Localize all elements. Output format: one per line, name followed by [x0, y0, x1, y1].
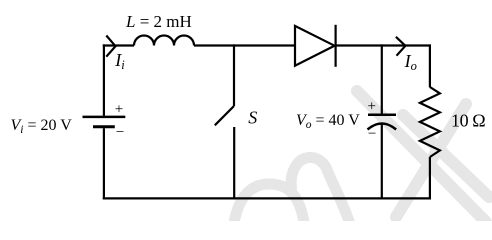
watermark diagonal band: [357, 91, 486, 222]
svg-text:−: −: [116, 125, 124, 141]
wire inductor to diode: [194, 44, 295, 46]
diode D1 triangle: [295, 26, 335, 66]
wire left vertical upper (source top): [103, 44, 105, 115]
arrow Ii chevron: [106, 36, 115, 57]
wire bottom rail: [103, 197, 431, 199]
svg-text:+: +: [115, 102, 123, 118]
watermark curl (digit 2 top): [291, 157, 349, 221]
wire resistor lower: [429, 157, 431, 200]
inductor L1 coil: [134, 36, 194, 46]
svg-text:Vo = 40 V: Vo = 40 V: [296, 112, 360, 131]
svg-text:Ii: Ii: [114, 50, 125, 72]
wire diode to top-right corner: [336, 44, 431, 46]
svg-text:Vi = 20 V: Vi = 20 V: [11, 117, 73, 136]
resistor R1 zigzag: [420, 87, 440, 157]
svg-text:Io: Io: [404, 51, 417, 73]
watermark stroke (digit 4 upstroke): [396, 104, 466, 217]
diode D1 cathode bar: [335, 25, 337, 67]
arrow Io chevron: [396, 37, 406, 56]
svg-text:L = 2 mH: L = 2 mH: [125, 12, 192, 31]
wire resistor upper: [429, 44, 431, 87]
switch S blade: [215, 106, 234, 125]
wire top-left segment: [103, 44, 134, 46]
svg-text:10 Ω: 10 Ω: [451, 111, 485, 131]
svg-text:S: S: [248, 108, 257, 128]
wire capacitor upper: [381, 44, 383, 114]
capacitor C1 top plate: [368, 114, 396, 117]
battery V1 positive plate: [83, 116, 126, 119]
wire switch upper: [233, 44, 235, 106]
wire switch lower: [233, 127, 235, 200]
capacitor C1 curved plate: [368, 124, 397, 130]
wire left vertical lower (source bottom): [103, 128, 105, 199]
wire capacitor lower: [381, 124, 383, 200]
watermark stroke (digit 4 crossbar): [403, 115, 489, 197]
svg-text:−: −: [368, 126, 376, 142]
svg-text:+: +: [368, 99, 376, 115]
battery V1 negative plate: [93, 125, 115, 128]
watermark arc (digit 0 top): [234, 184, 304, 223]
